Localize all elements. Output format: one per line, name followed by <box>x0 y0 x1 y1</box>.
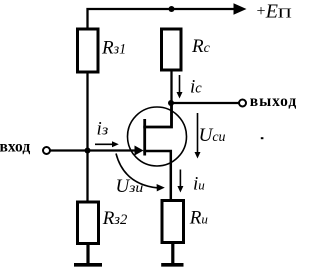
stray dot <box>261 137 264 139</box>
svg-text:Rс: Rс <box>191 36 211 57</box>
node: output junction dot <box>168 100 174 106</box>
voltage arrow UСИ <box>197 113 199 153</box>
wire: RЗ2 to ground <box>86 244 89 263</box>
wire: top supply rail with left drop to RЗ1 <box>88 9 235 29</box>
transistor VT drain lead <box>143 103 171 127</box>
svg-text:П: П <box>278 5 292 21</box>
svg-text:Rз1: Rз1 <box>101 38 126 59</box>
current arrow iЗ <box>95 143 113 145</box>
transistor VT body circle <box>128 107 187 166</box>
terminal: output circle <box>239 100 246 107</box>
svg-text:вход: вход <box>0 139 30 156</box>
resistor RЗ1 <box>78 29 99 72</box>
svg-text:+: + <box>257 3 266 20</box>
svg-text:выход: выход <box>250 93 297 110</box>
resistor RЗ2 <box>78 202 99 244</box>
voltage arrow UЗИ (curved) <box>116 154 157 188</box>
terminal: input circle <box>43 147 50 154</box>
wire: RC bottom to drain <box>170 70 172 128</box>
resistor RC <box>162 29 182 70</box>
current arrow iи <box>179 170 181 188</box>
svg-text:iз: iз <box>97 119 109 140</box>
svg-text:iи: iи <box>193 174 205 195</box>
wire: gate lead <box>88 149 136 151</box>
svg-text:iс: iс <box>190 77 202 98</box>
power +EП arrowhead <box>234 3 247 15</box>
svg-text:E: E <box>265 0 278 22</box>
node: gate junction dot <box>85 148 91 154</box>
wire: output lead <box>172 102 239 104</box>
node: junction dot on rail above RC <box>169 6 175 12</box>
wire: input lead to gate node <box>50 149 87 151</box>
wire: RИ to ground <box>171 243 174 264</box>
current arrow iC <box>179 75 181 93</box>
transistor VT channel bar <box>143 119 146 156</box>
transistor VT source lead <box>143 151 171 200</box>
wire: left vertical from RЗ1 to RЗ2 <box>86 72 88 201</box>
svg-text:Uзи: Uзи <box>116 176 144 197</box>
ground bar right <box>161 263 183 267</box>
resistor RИ <box>162 201 184 243</box>
svg-text:Rи: Rи <box>189 208 209 229</box>
svg-text:Uси: Uси <box>199 125 226 146</box>
ground bar left <box>74 263 102 267</box>
svg-text:Rз2: Rз2 <box>102 208 128 229</box>
transistor VT gate arrowhead <box>135 146 144 156</box>
